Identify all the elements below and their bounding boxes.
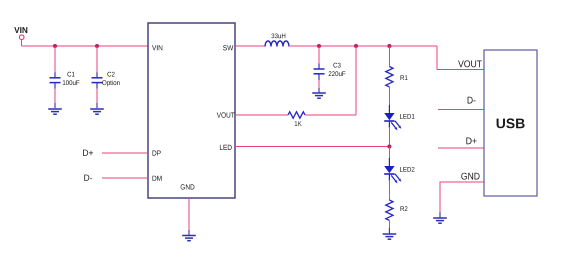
pin label GND (USB): [461, 173, 479, 180]
value label 33uH: [271, 34, 285, 39]
LED LED1: [384, 105, 401, 130]
wire C1 top lead: [54, 46, 56, 73]
wire 1K to feedback column: [305, 114, 356, 116]
wire corner to USB VOUT: [437, 46, 484, 70]
wire VOUT pin to 1K: [235, 114, 288, 116]
wire IC GND down: [188, 198, 190, 231]
wire VIN bus to IC: [22, 45, 149, 47]
wire LED pin to LED column: [235, 146, 389, 148]
wire VIN drop: [21, 40, 23, 46]
wire R1 to LED1: [388, 87, 390, 106]
label LED2: [400, 167, 415, 172]
label LED1: [400, 114, 415, 119]
capacitor C2: [92, 72, 103, 89]
wire C3 bottom lead: [318, 80, 320, 89]
junction C1: [53, 44, 57, 48]
wire C1 bottom lead: [54, 89, 56, 104]
resistor R2: [386, 200, 393, 220]
wire junction to LED2: [388, 147, 390, 160]
wire inductor to corner: [289, 45, 437, 47]
pin label LED: [220, 145, 232, 150]
value label 1K: [295, 121, 302, 126]
wire feedback vertical: [355, 46, 357, 115]
ground (IC GND): [182, 236, 196, 241]
wire C2 bottom lead: [96, 89, 98, 104]
junction LED column mid: [387, 145, 391, 149]
node VIN terminal circle: [19, 35, 24, 40]
junction LED column top: [387, 44, 391, 48]
pin label D- (USB): [468, 97, 476, 104]
label C2: [107, 72, 114, 77]
wire R2 to ground: [388, 220, 390, 229]
ground (R2): [383, 234, 397, 239]
wire DP stub: [102, 152, 148, 154]
ground (USB GND): [433, 218, 447, 223]
value label 100uF: [63, 80, 80, 85]
wire USB D+ stub: [438, 147, 484, 149]
wire USB GND to ground: [440, 182, 484, 213]
LED LED2: [384, 158, 401, 183]
ground (C1): [48, 109, 62, 114]
ground (C3): [312, 93, 326, 98]
junction C3: [317, 44, 321, 48]
label R1: [401, 75, 408, 80]
pin label SW: [223, 45, 233, 50]
capacitor C1: [50, 72, 61, 89]
label R2: [401, 206, 408, 211]
USB connector body: [484, 50, 537, 196]
value label Option: [102, 80, 119, 86]
pin label VOUT: [217, 112, 235, 117]
value label 220uF: [329, 71, 346, 76]
label D+: [83, 150, 93, 156]
resistor R1: [386, 67, 393, 87]
pin label D+ (USB): [466, 138, 476, 145]
junction feedback column: [354, 44, 358, 48]
wire USB D- stub: [438, 109, 484, 111]
pin label VIN: [152, 45, 162, 50]
pin label GND (IC): [181, 184, 195, 189]
ground (C2): [90, 109, 104, 114]
wire LED1 to junction: [388, 127, 390, 147]
IC U1 body: [148, 23, 235, 198]
inductor L 33uH: [265, 41, 289, 46]
pin label VOUT (USB): [458, 60, 482, 67]
wire C2 top lead: [96, 46, 98, 73]
label D-: [84, 175, 92, 181]
pin label DM: [153, 176, 162, 181]
label C3: [333, 63, 340, 68]
label C1: [67, 72, 74, 77]
wire top to R1: [388, 46, 390, 67]
wire DM stub: [102, 177, 148, 179]
node VIN terminal label: [14, 27, 27, 33]
capacitor C3: [314, 64, 325, 81]
label USB: [497, 118, 525, 128]
junction C2: [95, 44, 99, 48]
wire LED2 to R2: [388, 180, 390, 200]
pin label DP: [153, 151, 161, 156]
resistor 1K: [288, 112, 305, 118]
wire SW to inductor: [235, 45, 265, 47]
wire C3 top lead: [318, 46, 320, 64]
